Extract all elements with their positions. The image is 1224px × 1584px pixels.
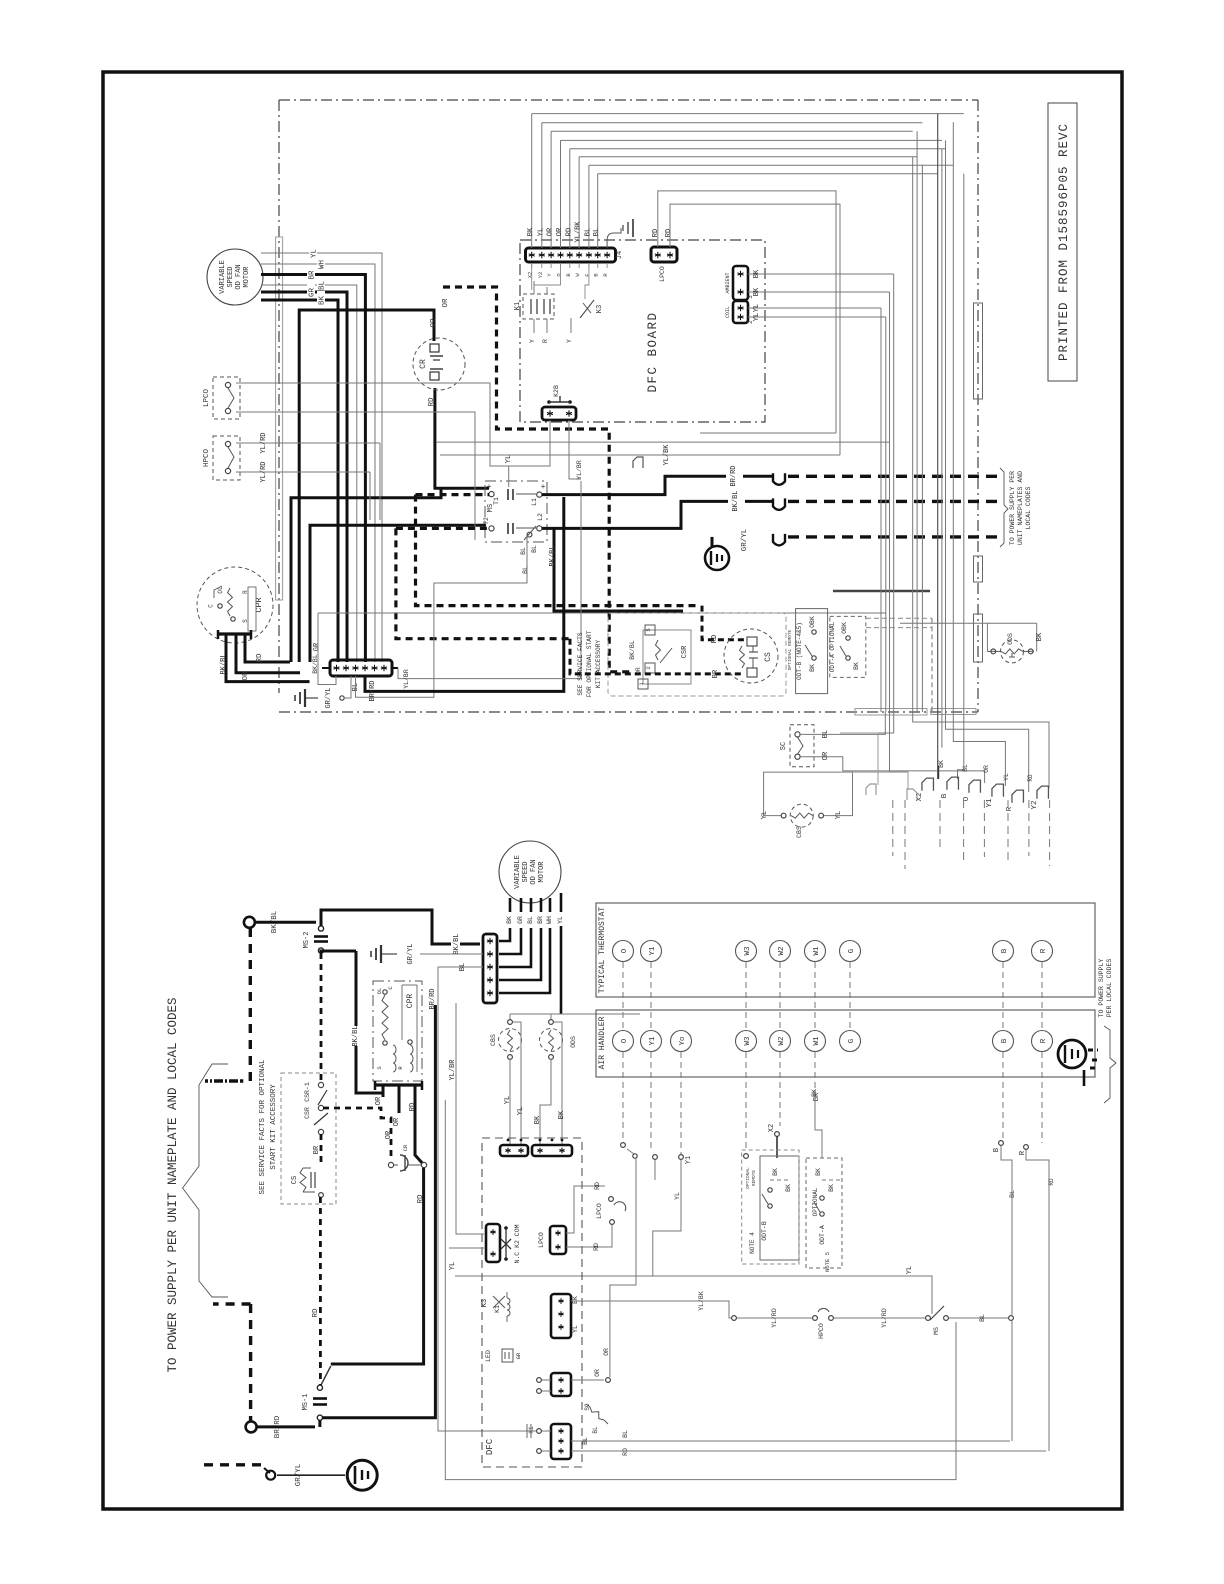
svg-text:BR: BR [537, 916, 544, 924]
svg-text:R: R [1040, 1038, 1048, 1043]
svg-text:YL: YL [1003, 773, 1010, 781]
svg-text:OR: OR [556, 227, 564, 236]
svg-text:CBS: CBS [490, 1034, 497, 1046]
svg-text:T2: T2 [483, 517, 490, 525]
svg-text:HPCO: HPCO [818, 1323, 825, 1339]
svg-text:SPEED: SPEED [522, 861, 530, 882]
svg-text:DFC BOARD: DFC BOARD [646, 311, 660, 392]
svg-text:TO POWER SUPPLY PER: TO POWER SUPPLY PER [1009, 471, 1016, 545]
svg-text:BL: BL [822, 730, 830, 738]
svg-text:OBK: OBK [809, 616, 816, 628]
svg-text:OR: OR [385, 1130, 393, 1139]
svg-text:BL: BL [531, 545, 538, 553]
svg-text:R: R [1006, 806, 1014, 811]
svg-text:B: B [1001, 1038, 1009, 1043]
svg-text:REMOTE: REMOTE [751, 1170, 757, 1187]
svg-text:Y1: Y1 [685, 1156, 693, 1164]
svg-text:CR: CR [419, 359, 428, 369]
svg-text:RD: RD [256, 653, 264, 663]
svg-text:BK/BL: BK/BL [453, 933, 461, 954]
svg-text:MS-2: MS-2 [303, 932, 311, 949]
svg-text:RD: RD [622, 1448, 629, 1456]
svg-text:5: 5 [645, 628, 652, 631]
svg-text:CBS: CBS [796, 826, 803, 838]
svg-text:YL: YL [835, 811, 843, 819]
svg-text:MS-1: MS-1 [302, 1394, 310, 1411]
svg-text:BK/BL: BK/BL [312, 654, 319, 674]
svg-text:CS: CS [291, 1176, 299, 1184]
svg-text:C: C [207, 604, 214, 608]
svg-text:X2: X2 [527, 272, 534, 279]
svg-text:RD: RD [594, 1182, 601, 1190]
svg-text:LED: LED [485, 1350, 492, 1362]
svg-text:OR: OR [242, 671, 250, 681]
svg-text:K1: K1 [514, 302, 522, 310]
svg-text:ODT-A OPTIONAL: ODT-A OPTIONAL [829, 621, 836, 672]
svg-text:B: B [993, 1148, 1001, 1152]
svg-text:O: O [963, 796, 971, 801]
svg-text:BL: BL [584, 228, 592, 236]
svg-text:Y1: Y1 [986, 798, 994, 808]
svg-text:BK: BK [506, 916, 513, 924]
svg-text:ODS: ODS [570, 1036, 577, 1048]
svg-text:W3: W3 [744, 1036, 752, 1046]
svg-text:BK: BK [815, 1168, 822, 1176]
svg-text:YL/BK: YL/BK [663, 444, 671, 466]
svg-text:SEE SERVICE FACTS: SEE SERVICE FACTS [577, 632, 584, 695]
svg-text:Y2: Y2 [537, 272, 544, 279]
svg-text:YL/BK: YL/BK [698, 1291, 705, 1311]
svg-text:G: G [848, 948, 856, 953]
svg-text:YL/RD: YL/RD [881, 1308, 888, 1328]
svg-text:LPCO: LPCO [596, 1203, 603, 1219]
svg-text:Y1: Y1 [649, 1036, 657, 1046]
svg-text:BR/RD: BR/RD [730, 465, 738, 486]
svg-text:BL: BL [319, 281, 327, 291]
svg-text:YL/RD: YL/RD [260, 461, 268, 482]
svg-text:AIR HANDLER: AIR HANDLER [598, 1016, 607, 1069]
svg-text:BK/BL: BK/BL [549, 545, 557, 566]
svg-text:YL/BR: YL/BR [403, 669, 410, 689]
svg-text:YL: YL [761, 811, 769, 819]
svg-text:DFC: DFC [485, 1438, 495, 1455]
svg-text:GR: GR [515, 1352, 522, 1359]
svg-text:ODS: ODS [1007, 633, 1014, 645]
svg-text:K3: K3 [481, 1299, 489, 1307]
svg-text:BK: BK [809, 664, 816, 672]
svg-text:BK: BK [319, 296, 327, 306]
svg-text:Y: Y [529, 339, 536, 343]
svg-text:+: + [487, 483, 492, 492]
svg-text:BL: BL [522, 566, 529, 574]
svg-text:FOR OPTIONAL START: FOR OPTIONAL START [586, 630, 593, 697]
svg-text:SC: SC [780, 742, 788, 750]
svg-text:RD: RD [312, 1308, 320, 1318]
svg-text:L2: L2 [537, 513, 544, 521]
svg-text:OL: OL [376, 988, 383, 995]
svg-text:LPCO: LPCO [538, 1232, 545, 1248]
svg-text:CPR: CPR [254, 597, 264, 612]
svg-text:RD: RD [417, 1194, 425, 1204]
svg-text:OR: OR [594, 1369, 601, 1377]
svg-text:K3: K3 [596, 305, 604, 313]
svg-text:VARIABLE: VARIABLE [514, 855, 522, 889]
svg-text:VARIABLE: VARIABLE [219, 260, 227, 294]
svg-text:HPCO: HPCO [203, 449, 211, 468]
svg-text:LPCO: LPCO [659, 266, 666, 282]
svg-text:OR: OR [442, 298, 450, 308]
svg-text:K2B: K2B [553, 385, 560, 397]
svg-text:BK: BK [527, 227, 535, 236]
svg-text:COIL: COIL [725, 306, 731, 318]
svg-text:NOTE 4: NOTE 4 [749, 1232, 756, 1254]
svg-text:BK: BK [938, 760, 945, 768]
svg-text:BL: BL [527, 916, 534, 924]
svg-text:YL/BR: YL/BR [576, 460, 583, 480]
svg-text:YL: YL [572, 1325, 579, 1333]
svg-text:RD: RD [409, 1103, 417, 1111]
svg-text:YL: YL [557, 916, 564, 924]
svg-text:OPTIONAL: OPTIONAL [812, 1187, 819, 1216]
svg-text:Yo: Yo [679, 1036, 687, 1046]
svg-text:ODT-B (NOTE-4&5): ODT-B (NOTE-4&5) [796, 622, 803, 680]
svg-text:RD: RD [593, 1243, 600, 1251]
svg-text:PRINTED FROM D158596P05 REVC: PRINTED FROM D158596P05 REVC [1057, 123, 1071, 361]
svg-text:BL: BL [593, 228, 601, 236]
svg-text:GR/YL: GR/YL [407, 943, 415, 964]
svg-text:BL: BL [592, 1426, 599, 1434]
svg-text:W2: W2 [778, 1036, 786, 1045]
svg-text:TYPICAL THERMOSTAT: TYPICAL THERMOSTAT [598, 907, 607, 994]
svg-text:BK: BK [534, 1115, 542, 1124]
svg-text:L1: L1 [531, 498, 538, 506]
svg-text:YL: YL [504, 1096, 512, 1104]
svg-text:YL: YL [537, 228, 545, 236]
svg-text:Y: Y [566, 339, 573, 343]
svg-text:OR: OR [393, 1117, 401, 1126]
svg-text:ODT-A: ODT-A [819, 1225, 826, 1245]
svg-text:MOTOR: MOTOR [538, 861, 546, 883]
svg-text:BR: BR [712, 669, 720, 678]
svg-text:W1: W1 [813, 946, 821, 956]
svg-text:BR: BR [309, 270, 317, 280]
svg-text:YL/BR: YL/BR [449, 1059, 457, 1081]
svg-text:OPTIONAL: OPTIONAL [745, 1167, 751, 1189]
svg-text:+: + [541, 483, 546, 492]
svg-text:BL: BL [520, 547, 527, 555]
svg-text:NOTE 5: NOTE 5 [824, 1252, 831, 1272]
svg-text:BK/BL: BK/BL [629, 640, 636, 660]
svg-text:RD: RD [1048, 1178, 1055, 1186]
svg-text:OR: OR [822, 751, 830, 760]
svg-text:BK: BK [785, 1184, 792, 1192]
svg-text:BK: BK [753, 269, 761, 278]
svg-text:Y2: Y2 [1031, 800, 1039, 809]
svg-text:YL: YL [674, 1192, 681, 1200]
svg-text:GR: GR [309, 288, 317, 298]
svg-text:BL: BL [1009, 1190, 1016, 1198]
svg-text:BK: BK [572, 1296, 579, 1304]
svg-text:LOCAL CODES: LOCAL CODES [1025, 486, 1032, 529]
svg-text:BL: BL [582, 1437, 589, 1445]
svg-text:CSR: CSR [304, 1107, 311, 1119]
svg-text:BK: BK [558, 1110, 566, 1119]
svg-text:BK: BK [753, 287, 761, 296]
svg-text:BK: BK [828, 1184, 835, 1192]
svg-text:YL: YL [517, 1107, 525, 1115]
svg-text:YL: YL [449, 1262, 457, 1270]
svg-text:T1: T1 [493, 497, 500, 505]
svg-text:YL: YL [505, 455, 513, 463]
svg-text:OD FAN: OD FAN [235, 264, 243, 289]
svg-text:OD FAN: OD FAN [530, 859, 538, 884]
svg-text:SPEED: SPEED [227, 266, 235, 287]
svg-text:Y1: Y1 [649, 946, 657, 956]
svg-text:WH: WH [319, 260, 327, 269]
svg-text:BK/BL: BK/BL [352, 1025, 360, 1046]
svg-text:W1: W1 [813, 1036, 821, 1046]
svg-text:RD: RD [665, 229, 673, 237]
svg-text:KIT ACCESSORY: KIT ACCESSORY [595, 640, 602, 689]
svg-text:MOTOR: MOTOR [243, 266, 251, 288]
svg-text:BL: BL [962, 764, 969, 772]
svg-text:R: R [1040, 948, 1048, 953]
svg-text:CR: CR [402, 1144, 409, 1151]
svg-text:GR: GR [313, 642, 321, 651]
svg-text:SEE SERVICE FACTS FOR OPTIONAL: SEE SERVICE FACTS FOR OPTIONAL [259, 1059, 267, 1195]
svg-text:G: G [848, 1038, 856, 1043]
svg-text:WH: WH [546, 916, 553, 924]
svg-text:MS: MS [487, 504, 495, 512]
svg-text:MS: MS [933, 1327, 940, 1335]
svg-text:BK: BK [811, 1089, 818, 1097]
svg-text:CPR: CPR [406, 994, 415, 1009]
svg-text:RD: RD [565, 228, 573, 236]
svg-text:OR: OR [430, 318, 438, 328]
svg-text:BR: BR [313, 1145, 321, 1154]
svg-text:YL/RD: YL/RD [260, 432, 268, 453]
svg-text:YL/BK: YL/BK [575, 221, 583, 243]
svg-text:OR: OR [603, 1348, 610, 1356]
svg-text:W3: W3 [744, 946, 752, 956]
svg-text:O: O [621, 948, 629, 953]
svg-text:LPCO: LPCO [203, 389, 211, 408]
svg-text:BK/BL: BK/BL [220, 653, 228, 674]
svg-text:BR/RD: BR/RD [369, 680, 377, 701]
svg-text:GR/YL: GR/YL [325, 687, 333, 708]
svg-text:OR: OR [547, 227, 555, 236]
svg-text:YL: YL [753, 313, 761, 321]
svg-text:GR/YL: GR/YL [741, 528, 749, 551]
svg-text:OPTIONAL REMOTE: OPTIONAL REMOTE [787, 629, 793, 670]
svg-text:OBK: OBK [841, 622, 848, 634]
svg-text:RD: RD [652, 229, 660, 237]
svg-text:RD: RD [1027, 774, 1034, 782]
svg-text:B: B [1001, 948, 1009, 953]
svg-text:AMBIENT: AMBIENT [725, 272, 731, 293]
svg-text:CSR-1: CSR-1 [304, 1082, 311, 1102]
svg-text:BL: BL [979, 1314, 986, 1322]
svg-text:RD: RD [428, 397, 436, 407]
svg-text:PER LOCAL CODES: PER LOCAL CODES [1106, 959, 1113, 1018]
svg-text:OR: OR [375, 1096, 383, 1105]
svg-text:BL: BL [622, 1430, 629, 1438]
svg-text:TO POWER SUPPLY PER UNIT NAMEP: TO POWER SUPPLY PER UNIT NAMEPLATE AND L… [166, 997, 180, 1372]
svg-text:J4: J4 [616, 251, 624, 259]
svg-text:BK: BK [1036, 632, 1044, 641]
svg-text:YL/RD: YL/RD [771, 1308, 778, 1328]
svg-text:BK: BK [853, 662, 860, 670]
svg-text:UNIT NAMEPLATES AND: UNIT NAMEPLATES AND [1017, 471, 1024, 545]
svg-text:B: B [941, 793, 949, 798]
svg-text:GR: GR [517, 916, 524, 924]
svg-text:R: R [542, 339, 549, 343]
svg-text:OR: OR [983, 765, 990, 773]
svg-text:ODT-B: ODT-B [761, 1221, 768, 1241]
svg-text:RD: RD [711, 635, 719, 643]
svg-text:YL: YL [753, 304, 761, 312]
svg-text:X2: X2 [768, 1124, 776, 1132]
svg-text:START KIT ACCESSORY: START KIT ACCESSORY [270, 1084, 278, 1170]
svg-text:BK: BK [772, 1168, 779, 1176]
svg-text:CS: CS [764, 652, 773, 662]
svg-text:TO POWER SUPPLY: TO POWER SUPPLY [1098, 959, 1105, 1018]
svg-text:W2: W2 [778, 946, 786, 955]
svg-text:CSR: CSR [681, 645, 689, 658]
svg-text:O: O [621, 1038, 629, 1043]
svg-text:BK/BL: BK/BL [732, 490, 740, 511]
svg-text:N.C K2 COM: N.C K2 COM [514, 1224, 521, 1263]
svg-text:2: 2 [645, 666, 652, 669]
svg-text:BR/RD: BR/RD [429, 988, 437, 1009]
svg-text:YL: YL [906, 1266, 914, 1274]
